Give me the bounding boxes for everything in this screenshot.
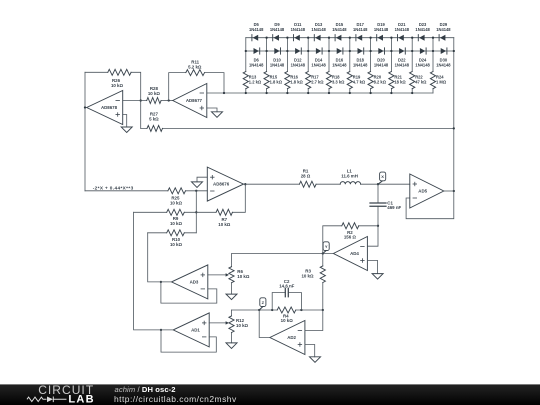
diode D6 (1N4148, middle row) [254, 48, 259, 54]
op-amp U2 AD8677 [173, 84, 207, 118]
diode D24 (1N4148, middle row) [420, 48, 425, 54]
svg-text:AD4: AD4 [350, 251, 359, 256]
wire: ladder column at x=391 [390, 38, 392, 93]
svg-text:1N4148: 1N4148 [353, 63, 368, 68]
svg-text:1N4148: 1N4148 [353, 27, 368, 32]
svg-text:R17: R17 [311, 74, 319, 79]
svg-text:469 nF: 469 nF [387, 205, 401, 210]
svg-text:10 kΩ: 10 kΩ [170, 201, 183, 206]
junction AD8676 - input [195, 190, 197, 192]
wire: AD2 - input to node [305, 310, 323, 331]
svg-text:R15: R15 [270, 74, 278, 79]
wire: ladder column at x=433 [432, 38, 434, 93]
svg-text:R18: R18 [332, 74, 340, 79]
svg-text:1N4148: 1N4148 [249, 63, 264, 68]
diode D16 (1N4148, middle row) [337, 48, 342, 54]
junction R26/R28 at AD8678 inverting input [140, 99, 142, 101]
svg-text:1N4148: 1N4148 [332, 27, 347, 32]
svg-text:X: X [381, 174, 384, 179]
op-amp U6 AD3 [172, 265, 208, 299]
svg-text:R22: R22 [415, 74, 423, 79]
junction R27 at X rail [453, 127, 455, 129]
diode D29 (1N4148, top row) [438, 35, 440, 41]
diode D9 (1N4148, top row) [272, 35, 274, 41]
resistor R9 [167, 209, 185, 215]
svg-text:R21: R21 [394, 74, 402, 79]
flag Z [259, 307, 263, 311]
svg-text:AD2: AD2 [287, 335, 296, 340]
op-amp U1 AD8678 [87, 91, 123, 125]
svg-text:AD8678: AD8678 [101, 105, 118, 110]
svg-text:11.6 mH: 11.6 mH [341, 173, 358, 178]
junction AD8676 output [244, 183, 246, 185]
svg-text:10 kΩ: 10 kΩ [301, 273, 314, 278]
wire: R26 feedback top [85, 72, 141, 128]
junction AD3 feedback at output [160, 281, 162, 283]
diode D17 (1N4148, top row) [355, 35, 357, 41]
diode D13 (1N4148, top row) [313, 35, 315, 41]
wire: AD2 output to Z [259, 310, 270, 338]
svg-text:1N4148: 1N4148 [395, 27, 410, 32]
resistor R1 [299, 181, 316, 187]
wire: Z line [232, 309, 323, 311]
wire: summing node vertical [195, 191, 197, 233]
svg-text:1.2 kΩ: 1.2 kΩ [249, 80, 262, 85]
junction R9/R7 at summing node [195, 211, 197, 213]
node X junction [377, 183, 379, 185]
svg-text:http://circuitlab.com/cn2mshv: http://circuitlab.com/cn2mshv [114, 394, 237, 404]
wire: ladder column at x=412 [411, 38, 413, 93]
wire: ladder column at x=371 [370, 38, 372, 93]
ground at R6 [226, 294, 237, 300]
resistor R10 [167, 230, 185, 236]
svg-text:28 Ω: 28 Ω [301, 173, 311, 178]
diode D23 (1N4148, top row) [417, 35, 419, 41]
junction R11 feedback at AD8677 output [168, 99, 170, 101]
svg-text:AD1: AD1 [191, 328, 200, 333]
resistor R20 [368, 72, 373, 89]
wire: R28 to AD8677 output [161, 100, 173, 102]
potentiometer R6 [229, 267, 234, 283]
diode D10 (1N4148, middle row) [274, 48, 279, 54]
svg-text:47 kΩ: 47 kΩ [415, 80, 427, 85]
svg-text:10 kΩ: 10 kΩ [281, 318, 294, 323]
svg-text:1N4148: 1N4148 [270, 63, 285, 68]
wire: R12 wiper to AD1 + [209, 322, 226, 324]
resistor R3 [322, 254, 324, 311]
svg-text:1N4148: 1N4148 [415, 63, 430, 68]
wire: R10 line [148, 232, 197, 234]
wire: R11 feedback loop [169, 73, 224, 101]
svg-text:AD8676: AD8676 [213, 182, 230, 187]
resistor R16 [285, 72, 290, 89]
svg-text:3.3 kΩ: 3.3 kΩ [332, 80, 345, 85]
svg-text:1N4148: 1N4148 [291, 27, 306, 32]
resistor R2 [342, 223, 359, 229]
svg-text:1N4148: 1N4148 [311, 63, 326, 68]
junction C2 left [271, 309, 273, 311]
svg-text:1N4148: 1N4148 [311, 27, 326, 32]
svg-text:1N4148: 1N4148 [332, 63, 347, 68]
svg-text:10 kΩ: 10 kΩ [148, 91, 161, 96]
resistor R21 [389, 72, 394, 89]
resistor R26 [108, 69, 131, 75]
ground at R12 [226, 343, 237, 349]
wire: ladder column at x=287 [286, 38, 288, 93]
resistor R19 [347, 72, 352, 89]
wire: ladder middle row [246, 50, 454, 52]
capacitor C1 [367, 184, 378, 246]
svg-text:1.8 kΩ: 1.8 kΩ [290, 80, 303, 85]
wire: R6 wiper to AD3 + [208, 274, 227, 276]
svg-text:1N4148: 1N4148 [436, 27, 451, 32]
op-amp U5 AD4 [333, 237, 367, 271]
op-amp U3 AD8676 [207, 167, 243, 201]
CircuitLab logo resistor+diode glyph [27, 397, 47, 401]
ground at AD4 + [372, 274, 383, 280]
wire: AD3 output to R10 [148, 233, 172, 282]
op-amp U4 AD5 [410, 174, 444, 208]
wire: AD8678 - input [123, 100, 147, 102]
svg-text:1N4148: 1N4148 [291, 63, 306, 68]
op-amp U7 AD1 [173, 313, 209, 347]
wire: AD3 feedback loop [161, 282, 217, 303]
node Z junction [258, 309, 260, 311]
wire: AD8676 + input to ground [197, 177, 207, 182]
wire: ladder column at x=350 [349, 38, 351, 93]
resistor R11 [186, 70, 205, 76]
diode D22 (1N4148, middle row) [399, 48, 404, 54]
wire: R2 feedback [323, 226, 378, 254]
wire: ladder top row [246, 37, 454, 39]
wire: R25 input line [85, 190, 207, 192]
svg-text:14.6 nF: 14.6 nF [279, 283, 294, 288]
wire: ladder column at x=267 [266, 38, 268, 93]
resistor R27 [141, 127, 454, 129]
wire: AD8677 - input / diode ladder bus [207, 92, 433, 94]
wire: AD8678 output rail (node -2*X + 0.44*X**3) [85, 72, 87, 191]
svg-text:AD8677: AD8677 [186, 98, 203, 103]
node Y junction [322, 252, 324, 254]
wire: Y line AD4 output to R6 [232, 254, 334, 267]
ground at AD8678 + [121, 127, 132, 133]
wire: ladder column at x=329 [328, 38, 330, 93]
svg-text:4.7 kΩ: 4.7 kΩ [353, 80, 366, 85]
wire: AD5 output [444, 190, 454, 192]
diode D12 (1N4148, middle row) [295, 48, 300, 54]
svg-text:10 kΩ: 10 kΩ [111, 83, 124, 88]
wire: AD4 + input to ground [367, 261, 377, 274]
svg-text:5 kΩ: 5 kΩ [149, 117, 159, 122]
svg-text:1.8 kΩ: 1.8 kΩ [270, 80, 283, 85]
svg-text:R13: R13 [249, 74, 257, 79]
wire: AD1 output to R9 [134, 212, 174, 330]
diode D21 (1N4148, top row) [397, 35, 399, 41]
diode D19 (1N4148, top row) [376, 35, 378, 41]
svg-text:R19: R19 [353, 74, 361, 79]
resistor R18 [326, 72, 331, 89]
capacitor C2 [272, 293, 301, 311]
svg-text:1N4148: 1N4148 [249, 27, 264, 32]
svg-text:2.7 kΩ: 2.7 kΩ [311, 80, 324, 85]
svg-text:LAB: LAB [68, 394, 95, 405]
flag Y [323, 251, 326, 254]
ground at AD2 + [310, 357, 321, 363]
resistor R25 [168, 188, 186, 194]
svg-text:10 kΩ: 10 kΩ [170, 242, 183, 247]
resistor R24 [430, 72, 435, 89]
junction C2 right [300, 309, 302, 311]
junction AD8678 output [84, 106, 86, 108]
svg-text:10 kΩ: 10 kΩ [236, 323, 249, 328]
svg-text:1N4148: 1N4148 [270, 27, 285, 32]
wire: AD1 feedback loop [161, 330, 216, 352]
resistor R13 [243, 72, 248, 89]
svg-text:10 kΩ: 10 kΩ [218, 222, 231, 227]
diode D15 (1N4148, top row) [334, 35, 336, 41]
wire: ladder right terminal to AD5 output [406, 38, 454, 219]
resistor R22 [410, 72, 415, 89]
svg-text:5.2 kΩ: 5.2 kΩ [188, 65, 202, 70]
svg-text:R16: R16 [290, 74, 298, 79]
svg-text:8.2 kΩ: 8.2 kΩ [374, 80, 387, 85]
resistor R4 [277, 307, 296, 313]
junction R11 at bus [223, 92, 225, 94]
junction R3/R4 at AD2 - input [322, 309, 324, 311]
svg-text:10 kΩ: 10 kΩ [170, 221, 183, 226]
wire: R9 line [134, 211, 197, 213]
ground at AD8677 + [212, 112, 223, 118]
diode D18 (1N4148, middle row) [358, 48, 363, 54]
junction AD5 output at X rail [453, 190, 455, 192]
flag X [378, 181, 383, 185]
junction dots ladder bus [245, 92, 247, 94]
svg-text:Y: Y [325, 244, 328, 249]
diode D5 (1N4148, top row) [251, 35, 253, 41]
resistor R15 [264, 72, 269, 89]
svg-text:1N4148: 1N4148 [374, 63, 389, 68]
resistor R28 [147, 98, 161, 104]
wire: ladder column at x=246 [245, 38, 247, 93]
wire: R7 feedback [196, 184, 245, 212]
svg-text:10 kΩ: 10 kΩ [237, 274, 250, 279]
svg-text:1N4148: 1N4148 [415, 27, 430, 32]
resistor R17 [306, 72, 311, 89]
svg-text:156 Ω: 156 Ω [344, 235, 357, 240]
diode D11 (1N4148, top row) [293, 35, 295, 41]
diode D14 (1N4148, middle row) [316, 48, 321, 54]
svg-text:1N4148: 1N4148 [374, 27, 389, 32]
ground at AD8676 + [192, 182, 203, 188]
op-amp U8 AD2 [270, 321, 305, 355]
potentiometer R12 [231, 310, 233, 343]
wire: AD2 + input to ground [305, 345, 315, 357]
svg-text:18 kΩ: 18 kΩ [394, 80, 406, 85]
footer bar [0, 384, 540, 405]
svg-text:R24: R24 [436, 74, 444, 79]
svg-text:AD3: AD3 [190, 280, 199, 285]
diode D20 (1N4148, middle row) [378, 48, 383, 54]
wire: AD8678 + input to ground [123, 115, 127, 128]
resistor R7 [216, 209, 232, 215]
svg-text:R20: R20 [374, 74, 382, 79]
wire: X line AD8676 to AD5 [244, 183, 410, 185]
svg-text:1 MΩ: 1 MΩ [436, 80, 447, 85]
svg-text:achim / DH osc-2: achim / DH osc-2 [115, 385, 176, 394]
wire: ladder column at x=308 [307, 38, 309, 93]
svg-text:1N4148: 1N4148 [436, 63, 451, 68]
svg-text:-2*X + 0.44*X**3: -2*X + 0.44*X**3 [93, 186, 134, 191]
wire: AD8677 + input to ground [207, 108, 217, 112]
diode D30 (1N4148, middle row) [441, 48, 446, 54]
junction C1/R2 at AD4 - input [377, 225, 379, 227]
svg-text:1N4148: 1N4148 [395, 63, 410, 68]
inductor L1 [340, 182, 360, 185]
junction AD1 feedback at output [160, 329, 162, 331]
svg-text:AD5: AD5 [418, 189, 427, 194]
junction dots ladder rows [265, 37, 267, 39]
